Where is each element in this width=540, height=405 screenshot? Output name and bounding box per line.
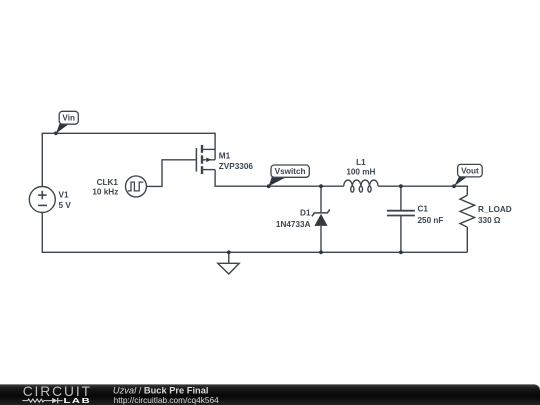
- svg-text:10 kHz: 10 kHz: [92, 188, 118, 197]
- svg-text:Uzval / Buck Pre Final: Uzval / Buck Pre Final: [113, 385, 209, 395]
- svg-text:D1: D1: [300, 208, 311, 217]
- svg-text:CLK1: CLK1: [97, 178, 119, 187]
- svg-text:Vswitch: Vswitch: [275, 167, 306, 176]
- svg-text:V1: V1: [59, 191, 69, 200]
- svg-text:L1: L1: [356, 158, 366, 167]
- svg-text:250 nF: 250 nF: [418, 216, 444, 225]
- svg-text:5 V: 5 V: [59, 201, 72, 210]
- svg-text:http://circuitlab.com/cq4k564: http://circuitlab.com/cq4k564: [114, 395, 220, 405]
- svg-text:M1: M1: [219, 152, 231, 161]
- svg-text:100 mH: 100 mH: [346, 168, 375, 177]
- svg-text:R_LOAD: R_LOAD: [478, 205, 512, 214]
- svg-text:LAB: LAB: [64, 396, 92, 405]
- svg-text:Vin: Vin: [62, 114, 75, 123]
- svg-text:1N4733A: 1N4733A: [276, 220, 311, 229]
- svg-text:C1: C1: [418, 204, 429, 213]
- svg-text:ZVP3306: ZVP3306: [219, 162, 254, 171]
- svg-text:Vout: Vout: [461, 167, 479, 176]
- svg-text:330 Ω: 330 Ω: [478, 216, 501, 225]
